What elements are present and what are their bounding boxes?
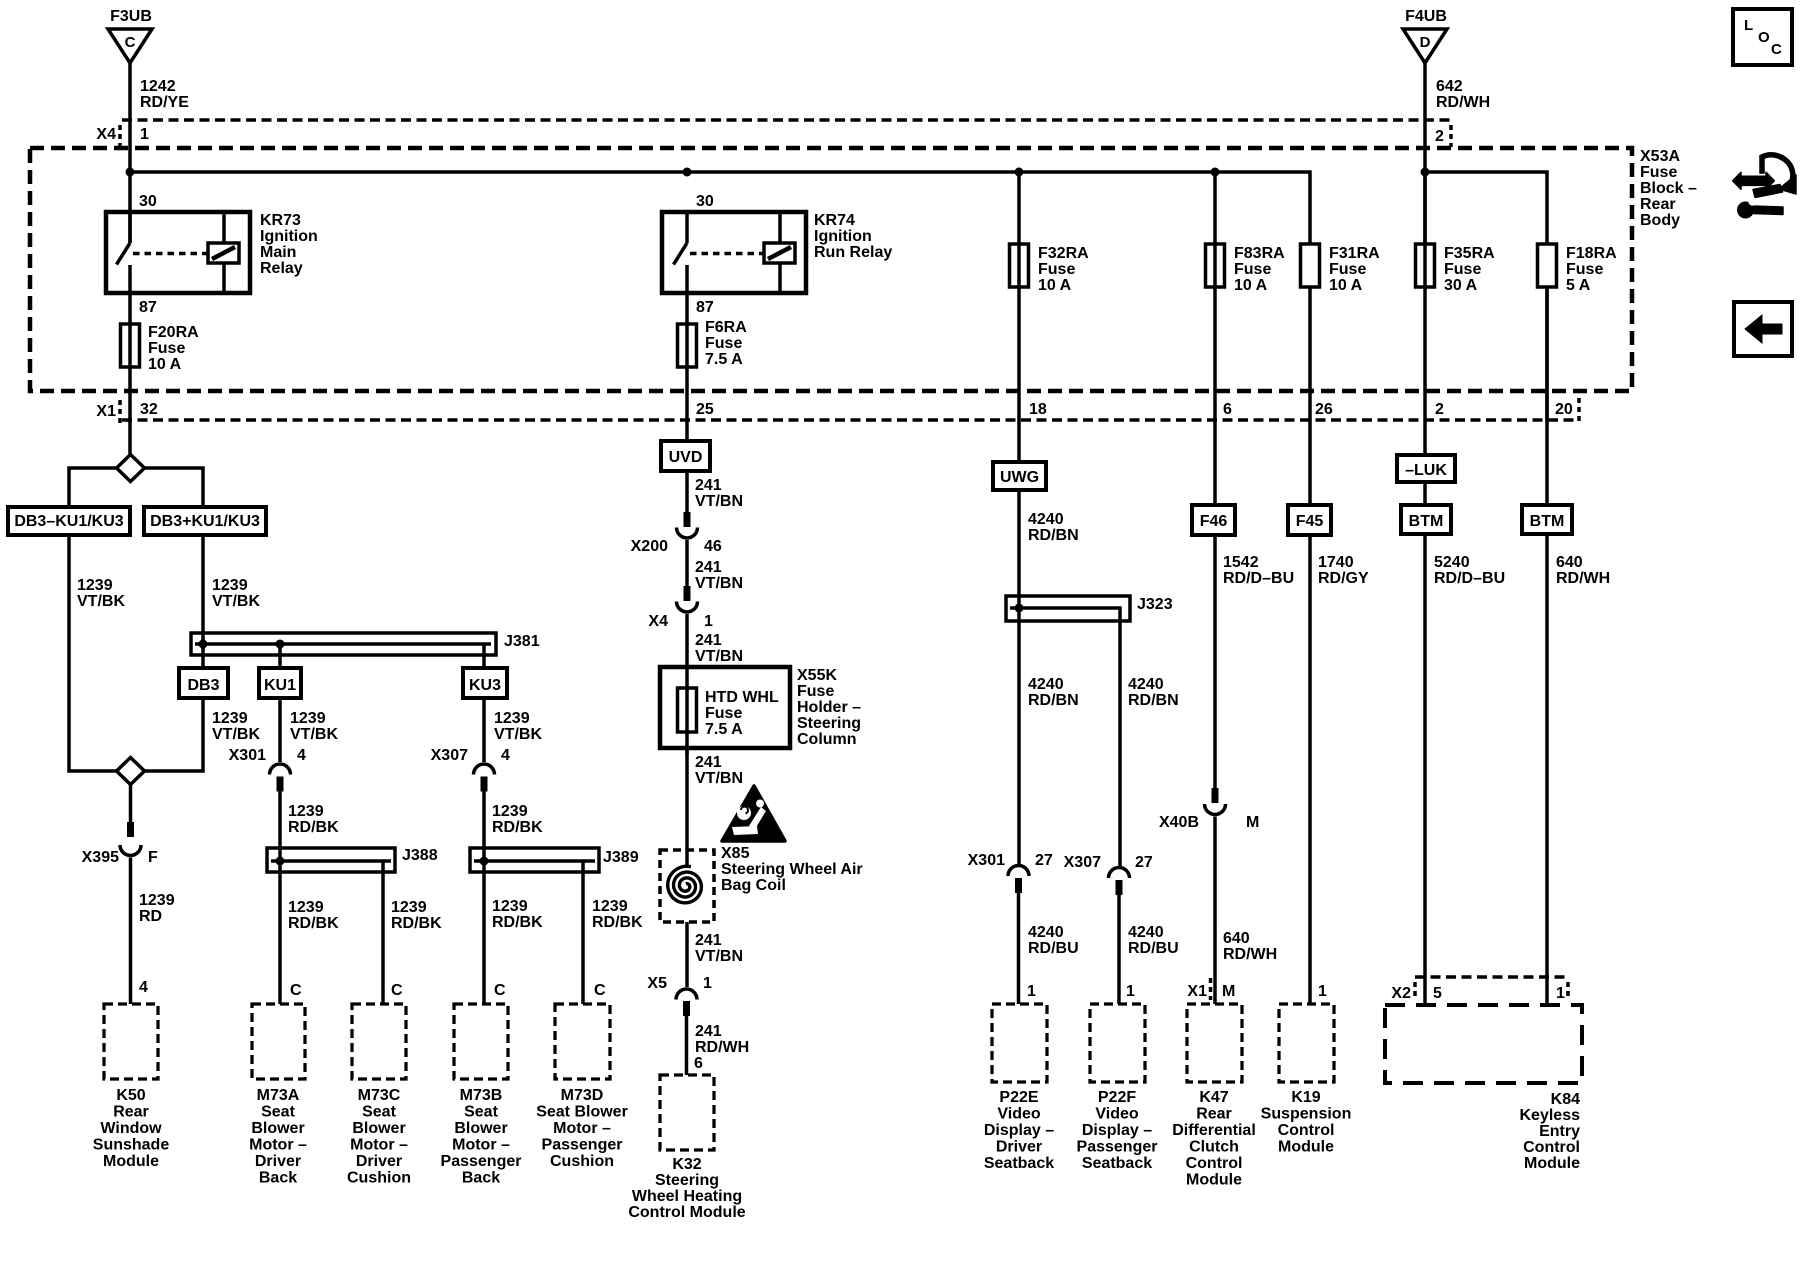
module K84 Keyless Entry Control Module — [1385, 1005, 1582, 1172]
wire from X1-26 to F45 — [1308, 420, 1312, 505]
wire 640 RD/WH BTM to K84 — [1545, 534, 1549, 1005]
svg-text:1740: 1740 — [1318, 554, 1354, 571]
svg-text:87: 87 — [139, 299, 157, 316]
svg-text:–LUK: –LUK — [1405, 462, 1447, 479]
svg-text:C: C — [125, 34, 136, 51]
svg-text:RD/BK: RD/BK — [492, 914, 543, 931]
junction at F35RA / F4UB wire — [1421, 168, 1430, 177]
net label box DB3 — [179, 668, 228, 698]
svg-text:Steering Wheel Air: Steering Wheel Air — [721, 861, 863, 878]
connector X2 of K84 — [1391, 977, 1570, 1002]
label X85 Steering Wheel Air Bag Coil — [721, 845, 863, 894]
svg-text:Module: Module — [103, 1153, 159, 1170]
svg-text:X1: X1 — [1187, 983, 1207, 1000]
svg-text:Motor –: Motor – — [249, 1137, 307, 1154]
svg-text:Steering: Steering — [797, 715, 861, 732]
label 4240 RD/BN (P22F leg) — [1128, 676, 1179, 709]
in-line connector X4 pin 1 (column) — [648, 586, 713, 630]
svg-text:640: 640 — [1223, 930, 1250, 947]
svg-text:1: 1 — [1318, 983, 1327, 1000]
label 4240 RD/BN (P22E leg) — [1028, 676, 1079, 709]
connector X4 boundary line — [96, 120, 1451, 147]
svg-text:Control: Control — [1523, 1139, 1580, 1156]
svg-text:VT/BN: VT/BN — [695, 648, 743, 665]
svg-text:C: C — [1771, 41, 1782, 58]
svg-text:VT/BK: VT/BK — [494, 726, 542, 743]
wire 241 VT/BN X55K to air bag coil — [685, 748, 689, 868]
svg-text:Control: Control — [1186, 1155, 1243, 1172]
svg-text:BTM: BTM — [1409, 513, 1444, 530]
net label box BTM (left) — [1401, 505, 1451, 534]
label 1239 VT/BK (KU1) — [290, 710, 338, 743]
svg-text:J388: J388 — [402, 847, 438, 864]
svg-text:Blower: Blower — [251, 1120, 304, 1137]
label 1239 VT/BK (DB3) — [212, 710, 260, 743]
svg-text:K19: K19 — [1291, 1089, 1320, 1106]
in-line connector X200 pin 46 — [631, 512, 722, 555]
svg-text:1239: 1239 — [288, 803, 324, 820]
svg-text:M: M — [1246, 814, 1259, 831]
label 241 VT/BN (below X55K) — [695, 754, 743, 787]
svg-text:X1: X1 — [96, 403, 116, 420]
svg-text:RD/WH: RD/WH — [1436, 94, 1490, 111]
svg-text:X395: X395 — [82, 849, 119, 866]
svg-text:Seat: Seat — [464, 1104, 498, 1121]
net label box KU1 — [259, 644, 301, 698]
svg-text:X307: X307 — [1064, 854, 1101, 871]
label 4240 RD/BN (below UWG) — [1028, 511, 1079, 544]
svg-text:4240: 4240 — [1028, 676, 1064, 693]
svg-text:K84: K84 — [1551, 1091, 1580, 1108]
net label box BTM (right) — [1522, 505, 1572, 534]
wire 1239 RD/BK to M73B — [482, 861, 486, 1004]
module P22F Video Display - Passenger Seatback — [1077, 1004, 1158, 1172]
svg-text:Rear: Rear — [1196, 1106, 1232, 1123]
svg-text:RD/BK: RD/BK — [391, 915, 442, 932]
in-line connector X307 pin 4 (seat harness) — [431, 747, 510, 792]
label 241 VT/BN (below UVD) — [695, 477, 743, 510]
svg-text:RD/GY: RD/GY — [1318, 570, 1369, 587]
module M73D Seat Blower Motor - Passenger Cushion — [536, 1004, 628, 1170]
wire 1239 RD to X395 — [129, 785, 133, 823]
splice pack J323 — [1006, 596, 1173, 621]
svg-text:RD/BN: RD/BN — [1028, 692, 1079, 709]
svg-text:P22F: P22F — [1098, 1089, 1136, 1106]
svg-text:4240: 4240 — [1028, 511, 1064, 528]
svg-text:10 A: 10 A — [1038, 277, 1072, 294]
svg-text:Passenger: Passenger — [441, 1153, 522, 1170]
fuse F35RA 30 A — [1416, 172, 1496, 420]
wire from X1-18 to UWG — [1017, 420, 1021, 462]
wire -LUK to BTM — [1423, 482, 1427, 505]
svg-text:Wheel Heating: Wheel Heating — [632, 1188, 742, 1205]
svg-text:1239: 1239 — [391, 899, 427, 916]
label X53A Fuse Block - Rear Body — [1640, 148, 1697, 229]
back arrow icon — [1734, 302, 1792, 356]
svg-text:1542: 1542 — [1223, 554, 1259, 571]
junction at KR73 pin 30 — [126, 168, 135, 177]
in-line connector X395 pin F — [82, 822, 158, 866]
svg-text:10 A: 10 A — [1234, 277, 1268, 294]
svg-text:1239: 1239 — [492, 803, 528, 820]
wire 1239 VT/BK KU3 to X307 — [482, 698, 486, 762]
label X55K Fuse Holder - Steering Column — [797, 667, 861, 748]
svg-text:X200: X200 — [631, 538, 668, 555]
svg-text:Entry: Entry — [1539, 1123, 1580, 1140]
wire 1239 VT/BK right leg to splice J381 — [201, 535, 205, 668]
svg-text:Holder –: Holder – — [797, 699, 861, 716]
svg-text:X301: X301 — [968, 852, 1005, 869]
svg-text:241: 241 — [695, 559, 722, 576]
relay KR74 Ignition Run Relay — [662, 193, 892, 316]
svg-text:1239: 1239 — [290, 710, 326, 727]
bus wire from F4UB feed to F18RA — [1425, 172, 1547, 244]
svg-text:BTM: BTM — [1530, 513, 1565, 530]
wire 1242 RD/YE from F3UB into fuse block — [128, 63, 132, 243]
svg-text:46: 46 — [704, 538, 722, 555]
svg-text:Motor –: Motor – — [350, 1137, 408, 1154]
svg-text:KU1: KU1 — [264, 677, 296, 694]
svg-text:10 A: 10 A — [148, 356, 182, 373]
junction at KR74 pin 30 — [683, 168, 692, 177]
svg-text:Seat Blower: Seat Blower — [536, 1104, 628, 1121]
svg-text:1239: 1239 — [492, 898, 528, 915]
svg-text:C: C — [290, 982, 302, 999]
svg-text:X55K: X55K — [797, 667, 837, 684]
off-page connector F4UB (triangle D) — [1403, 8, 1447, 63]
svg-text:1: 1 — [1126, 983, 1135, 1000]
module M73A Seat Blower Motor - Driver Back — [249, 1004, 307, 1187]
svg-text:VT/BN: VT/BN — [695, 575, 743, 592]
net label box DB3+KU1/KU3 — [144, 507, 266, 535]
fuse F83RA 10 A — [1206, 172, 1286, 420]
label 1542 RD/D-BU — [1223, 554, 1294, 587]
in-line connector X301 pin 4 (seat harness) — [229, 747, 306, 792]
svg-text:640: 640 — [1556, 554, 1583, 571]
svg-text:VT/BK: VT/BK — [212, 726, 260, 743]
net label box F46 — [1192, 505, 1235, 535]
svg-text:RD/BN: RD/BN — [1128, 692, 1179, 709]
svg-text:Suspension: Suspension — [1261, 1106, 1352, 1123]
in-line connector X40B pin M — [1159, 788, 1259, 831]
svg-text:RD/BK: RD/BK — [592, 914, 643, 931]
svg-text:X307: X307 — [431, 747, 468, 764]
net label box KU3 — [463, 644, 507, 698]
svg-text:Blower: Blower — [454, 1120, 507, 1137]
air bag caution symbol — [722, 786, 785, 841]
svg-text:RD/BU: RD/BU — [1028, 940, 1079, 957]
bus wire from KR73 feed across fuse block — [130, 172, 1310, 244]
svg-text:K32: K32 — [672, 1156, 701, 1173]
svg-text:F45: F45 — [1296, 513, 1324, 530]
svg-text:Back: Back — [259, 1170, 297, 1187]
svg-text:1239: 1239 — [288, 899, 324, 916]
junction at fuse F83RA — [1211, 168, 1220, 177]
label 1239 RD/BK (above J389) — [492, 803, 543, 836]
wire 241 VT/BN X4 to X55K — [685, 614, 689, 688]
svg-text:241: 241 — [695, 1023, 722, 1040]
wire 1740 RD/GY F45 to K19 — [1308, 535, 1312, 1004]
svg-text:P22E: P22E — [999, 1089, 1038, 1106]
svg-text:1: 1 — [703, 975, 712, 992]
svg-text:Cushion: Cushion — [550, 1153, 614, 1170]
svg-text:DB3+KU1/KU3: DB3+KU1/KU3 — [150, 513, 260, 530]
svg-text:241: 241 — [695, 754, 722, 771]
svg-text:F46: F46 — [1200, 513, 1228, 530]
svg-text:Passenger: Passenger — [1077, 1139, 1158, 1156]
junction J388 — [276, 857, 285, 866]
splice diamond (upper) — [117, 455, 145, 482]
svg-text:J381: J381 — [504, 633, 540, 650]
svg-text:X2: X2 — [1391, 985, 1411, 1002]
in-line connector X5 pin 1 — [647, 975, 712, 1016]
in-line connector X307 pin 27 — [1064, 854, 1153, 895]
svg-text:Cushion: Cushion — [347, 1170, 411, 1187]
svg-text:DB3–KU1/KU3: DB3–KU1/KU3 — [14, 513, 123, 530]
wire 642 RD/WH from F4UB — [1423, 63, 1427, 244]
label 1740 RD/GY — [1318, 554, 1369, 587]
net label box F45 — [1288, 505, 1331, 535]
module K50 Rear Window Sunshade Module — [93, 1004, 170, 1170]
svg-text:20: 20 — [1555, 401, 1573, 418]
svg-text:RD/YE: RD/YE — [140, 94, 189, 111]
svg-text:HTD WHL: HTD WHL — [705, 689, 779, 706]
wire 4240 RD/BN to X307 — [1118, 621, 1122, 868]
svg-text:Block –: Block – — [1640, 180, 1697, 197]
svg-text:X85: X85 — [721, 845, 750, 862]
svg-text:Run Relay: Run Relay — [814, 244, 892, 261]
svg-text:K47: K47 — [1199, 1089, 1228, 1106]
svg-text:C: C — [494, 982, 506, 999]
label 1239 RD/BK (M73C) — [391, 899, 442, 932]
svg-text:M73B: M73B — [460, 1087, 503, 1104]
junction J381 at DB3 wire — [199, 640, 208, 649]
svg-text:KR74: KR74 — [814, 212, 855, 229]
svg-text:1239: 1239 — [494, 710, 530, 727]
svg-text:Fuse: Fuse — [705, 335, 742, 352]
svg-text:Motor –: Motor – — [553, 1120, 611, 1137]
svg-text:Display –: Display – — [1082, 1122, 1152, 1139]
svg-text:1: 1 — [1556, 985, 1565, 1002]
wire 241 VT/BN X200 to X4 — [685, 540, 689, 586]
svg-text:Seatback: Seatback — [1082, 1155, 1152, 1172]
junction J323 — [1015, 604, 1024, 613]
svg-text:4: 4 — [139, 979, 148, 996]
svg-text:Fuse: Fuse — [1234, 261, 1271, 278]
net label box UWG — [993, 462, 1046, 490]
svg-text:Keyless: Keyless — [1520, 1107, 1581, 1124]
svg-text:1239: 1239 — [212, 710, 248, 727]
wire from X1-32 to splice diamond — [128, 420, 132, 455]
svg-text:RD/BU: RD/BU — [1128, 940, 1179, 957]
svg-text:Motor –: Motor – — [452, 1137, 510, 1154]
label 4240 RD/BU (P22F) — [1128, 924, 1179, 957]
svg-text:1239: 1239 — [212, 577, 248, 594]
wire 1239 RD to K50 — [129, 858, 133, 1005]
svg-text:4: 4 — [501, 747, 510, 764]
wire 1239 VT/BK left leg — [69, 535, 117, 771]
svg-text:F35RA: F35RA — [1444, 245, 1495, 262]
svg-text:VT/BK: VT/BK — [77, 593, 125, 610]
svg-text:RD/WH: RD/WH — [1223, 946, 1277, 963]
wire 1239 RD/BK to M73D — [581, 861, 585, 1004]
svg-text:Clutch: Clutch — [1189, 1139, 1239, 1156]
svg-text:F18RA: F18RA — [1566, 245, 1617, 262]
svg-text:30 A: 30 A — [1444, 277, 1478, 294]
fuse holder X55K with HTD WHL fuse 7.5 A — [660, 667, 790, 755]
fuse F20RA 10 A — [121, 293, 200, 420]
wire 4240 RD/BN UWG to J323 — [1017, 490, 1021, 608]
svg-text:Seat: Seat — [362, 1104, 396, 1121]
wire 1239 RD/BK X307 to J389 — [482, 792, 486, 862]
svg-text:Module: Module — [1278, 1139, 1334, 1156]
svg-text:Control Module: Control Module — [628, 1204, 745, 1221]
svg-text:Seat: Seat — [261, 1104, 295, 1121]
label 1239 RD/BK (M73A) — [288, 899, 339, 932]
fuse F31RA 10 A — [1301, 244, 1381, 420]
label 1239 VT/BK (KU3) — [494, 710, 542, 743]
svg-text:UVD: UVD — [669, 449, 703, 466]
svg-text:Body: Body — [1640, 212, 1680, 229]
fuse block X53A dashed outline — [30, 148, 1632, 391]
svg-text:Driver: Driver — [255, 1153, 301, 1170]
label 1239 RD/BK (M73D) — [592, 898, 643, 931]
svg-text:5: 5 — [1433, 985, 1442, 1002]
label 1239 RD — [139, 892, 175, 925]
svg-text:Fuse: Fuse — [148, 340, 185, 357]
svg-text:Fuse: Fuse — [1038, 261, 1075, 278]
svg-text:L: L — [1744, 17, 1753, 34]
svg-text:X53A: X53A — [1640, 148, 1680, 165]
relay KR73 Ignition Main Relay — [106, 193, 318, 316]
wire 4240 RD/BU to P22F — [1117, 895, 1121, 1004]
svg-text:Control: Control — [1278, 1122, 1335, 1139]
svg-text:RD/D–BU: RD/D–BU — [1434, 570, 1505, 587]
svg-text:Bag Coil: Bag Coil — [721, 877, 786, 894]
wire 1239 RD/BK to M73C — [381, 861, 385, 1004]
svg-text:UWG: UWG — [1000, 469, 1039, 486]
svg-text:26: 26 — [1315, 401, 1333, 418]
svg-text:RD/BK: RD/BK — [288, 819, 339, 836]
svg-text:Seatback: Seatback — [984, 1155, 1054, 1172]
net label box DB3-KU1/KU3 — [8, 507, 130, 535]
module K47 Rear Differential Clutch Control Module — [1172, 1004, 1256, 1189]
splice pack J389 — [470, 848, 639, 872]
label 640 RD/WH (K84) — [1556, 554, 1610, 587]
wire 241 VT/BN coil to X5 — [685, 922, 689, 987]
svg-text:KU3: KU3 — [469, 677, 501, 694]
svg-text:Fuse: Fuse — [1566, 261, 1603, 278]
module P22E Video Display - Driver Seatback — [984, 1004, 1054, 1172]
svg-text:VT/BN: VT/BN — [695, 770, 743, 787]
svg-text:30: 30 — [139, 193, 157, 210]
svg-text:RD: RD — [139, 908, 162, 925]
svg-text:Rear: Rear — [1640, 196, 1676, 213]
label 241 VT/BN (above X55K) — [695, 632, 743, 665]
svg-text:Video: Video — [997, 1106, 1041, 1123]
label 241 RD/WH — [695, 1023, 749, 1056]
wire from X1-20 to BTM — [1545, 287, 1549, 505]
svg-text:Ignition: Ignition — [814, 228, 872, 245]
svg-text:241: 241 — [695, 632, 722, 649]
svg-text:Main: Main — [260, 244, 296, 261]
svg-text:Blower: Blower — [352, 1120, 405, 1137]
svg-text:87: 87 — [696, 299, 714, 316]
svg-text:X40B: X40B — [1159, 814, 1199, 831]
label 4240 RD/BU (P22E) — [1028, 924, 1079, 957]
svg-text:10 A: 10 A — [1329, 277, 1363, 294]
wire DB3 to lower splice — [145, 698, 204, 771]
svg-text:Fuse: Fuse — [1640, 164, 1677, 181]
svg-text:VT/BK: VT/BK — [290, 726, 338, 743]
svg-text:642: 642 — [1436, 78, 1463, 95]
svg-text:1: 1 — [704, 613, 713, 630]
svg-text:241: 241 — [695, 932, 722, 949]
svg-text:D: D — [1420, 34, 1431, 51]
svg-text:F3UB: F3UB — [110, 8, 152, 25]
label 1239 VT/BK (left leg) — [77, 577, 125, 610]
svg-text:Driver: Driver — [356, 1153, 402, 1170]
svg-text:4240: 4240 — [1128, 676, 1164, 693]
svg-text:27: 27 — [1035, 852, 1053, 869]
wire 640 RD/WH X40B to K47 — [1213, 817, 1217, 1005]
connector X1 boundary line — [96, 398, 1579, 424]
svg-text:7.5 A: 7.5 A — [705, 721, 743, 738]
svg-text:X4: X4 — [648, 613, 668, 630]
label 241 VT/BN (below coil) — [695, 932, 743, 965]
label 241 VT/BN (below X200) — [695, 559, 743, 592]
svg-text:1242: 1242 — [140, 78, 176, 95]
svg-text:Differential: Differential — [1172, 1122, 1256, 1139]
svg-text:Fuse: Fuse — [1444, 261, 1481, 278]
module M73B Seat Blower Motor - Passenger Back — [441, 1004, 522, 1187]
svg-text:6: 6 — [1223, 401, 1232, 418]
svg-text:Display –: Display – — [984, 1122, 1054, 1139]
svg-text:27: 27 — [1135, 854, 1153, 871]
label 1242 RD/YE — [140, 78, 189, 111]
svg-text:RD/D–BU: RD/D–BU — [1223, 570, 1294, 587]
svg-text:Column: Column — [797, 731, 857, 748]
svg-text:1239: 1239 — [592, 898, 628, 915]
svg-text:1: 1 — [140, 126, 149, 143]
svg-text:RD/BK: RD/BK — [492, 819, 543, 836]
wire from X1-6 to F46 — [1213, 420, 1217, 505]
svg-text:O: O — [1758, 29, 1770, 46]
svg-text:M: M — [1222, 983, 1235, 1000]
svg-text:Module: Module — [1524, 1155, 1580, 1172]
svg-text:5240: 5240 — [1434, 554, 1470, 571]
svg-text:F83RA: F83RA — [1234, 245, 1285, 262]
wire 4240 RD/BN to X301 — [1017, 608, 1021, 866]
svg-text:F4UB: F4UB — [1405, 8, 1447, 25]
net label box UVD — [661, 441, 710, 471]
svg-text:2: 2 — [1435, 128, 1444, 145]
junction J389 — [480, 857, 489, 866]
svg-text:F32RA: F32RA — [1038, 245, 1089, 262]
svg-text:Module: Module — [1186, 1172, 1242, 1189]
wire 1542 RD/D-BU F46 to X40B — [1213, 535, 1217, 788]
svg-text:Fuse: Fuse — [797, 683, 834, 700]
label 5240 RD/D-BU — [1434, 554, 1505, 587]
svg-text:Window: Window — [100, 1120, 162, 1137]
svg-text:X5: X5 — [647, 975, 667, 992]
svg-text:Sunshade: Sunshade — [93, 1137, 170, 1154]
wire 5240 RD/D-BU BTM to K84 — [1423, 534, 1427, 1005]
wire 1239 RD/BK X301 to J388 — [278, 792, 282, 862]
wire to DB3+KU1/KU3 tap — [145, 468, 204, 507]
junction at fuse F32RA — [1015, 168, 1024, 177]
svg-text:RD/WH: RD/WH — [1556, 570, 1610, 587]
